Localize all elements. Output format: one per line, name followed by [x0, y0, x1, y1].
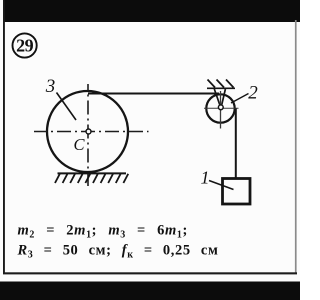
problem number badge circle	[13, 33, 37, 57]
top black scan band	[4, 0, 301, 22]
pulley bracket left leg	[214, 89, 219, 105]
svg-text:3: 3	[45, 76, 56, 97]
pulley 2 (small circle)	[206, 94, 234, 122]
horizontal rope from cylinder to pulley	[88, 93, 219, 95]
ceiling hatching	[208, 80, 234, 88]
pulley crosshair horizontal	[204, 107, 239, 109]
pulley axle mark (open circle)	[218, 105, 223, 110]
right frame border	[295, 20, 297, 273]
vertical centerline of cylinder	[87, 84, 89, 186]
ground line under cylinder	[58, 172, 127, 174]
svg-text:C: C	[74, 135, 86, 154]
cylinder 3 (large circle)	[47, 91, 128, 172]
bottom frame border	[3, 272, 297, 274]
leader line for label 1	[209, 181, 234, 190]
center mark C (open circle)	[86, 129, 91, 134]
horizontal centerline of cylinder	[34, 131, 149, 133]
ground hatching	[55, 174, 128, 183]
svg-text:29: 29	[16, 36, 34, 56]
leader line for label 3	[57, 93, 77, 121]
pulley crosshair vertical	[220, 91, 222, 129]
svg-text:m2 = 2m1; m3 = 6m1;: m2 = 2m1; m3 = 6m1;	[18, 223, 188, 241]
svg-text:1: 1	[201, 168, 210, 188]
left frame border	[3, 0, 5, 274]
vertical rope from pulley to block	[235, 109, 237, 179]
ceiling support line	[207, 87, 235, 89]
pulley bracket right leg	[222, 89, 226, 105]
block 1 (weight)	[223, 179, 251, 205]
svg-text:R3 = 50 см; fк = 0,25 см: R3 = 50 см; fк = 0,25 см	[17, 243, 219, 261]
svg-text:2: 2	[248, 83, 258, 104]
leader line for label 2	[231, 94, 249, 104]
bottom black scan band	[0, 282, 300, 300]
